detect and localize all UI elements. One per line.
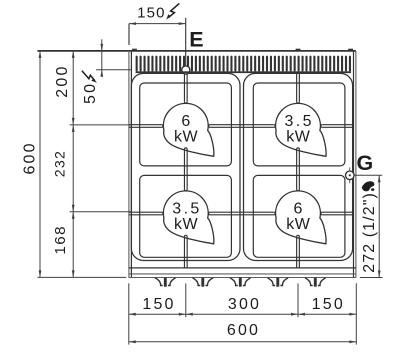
electrical connection point E xyxy=(182,66,190,74)
pan support frame bottom-left xyxy=(140,175,232,257)
pan support frame top-right xyxy=(253,83,345,166)
dimension chain 150/300/150 (bottom) xyxy=(129,283,356,344)
left hob panel outline xyxy=(131,73,240,260)
pan support frame top-left xyxy=(140,83,232,166)
svg-text:150: 150 xyxy=(312,296,345,313)
leader line to electrical connection E xyxy=(185,18,187,66)
svg-text:50: 50 xyxy=(82,82,99,104)
control knobs xyxy=(155,278,326,287)
cooktop left side wall xyxy=(129,51,132,278)
svg-text:kW: kW xyxy=(174,128,199,145)
value label 3.5 kW top-right xyxy=(284,113,313,145)
cooktop front edge xyxy=(129,268,356,278)
label G xyxy=(357,151,374,175)
dimension 272 (1/2&quot;) gas connection height (right) xyxy=(354,175,382,277)
svg-text:kW: kW xyxy=(174,216,199,233)
value label 3.5 kW bottom-left xyxy=(172,200,201,232)
label E xyxy=(189,28,203,52)
svg-text:168: 168 xyxy=(52,225,69,255)
burner 3.5 kW top-right xyxy=(276,103,326,156)
svg-text:150: 150 xyxy=(137,5,166,22)
burner 3.5 kW bottom-left xyxy=(163,191,213,244)
cooktop top rear edge xyxy=(37,50,356,52)
svg-text:E: E xyxy=(189,28,203,52)
dimension chain 200/232/168 (left) xyxy=(37,51,131,278)
svg-text:150: 150 xyxy=(142,296,175,313)
right hob panel outline xyxy=(244,73,353,260)
svg-text:232: 232 xyxy=(53,150,69,177)
rear ventilation rib strip xyxy=(136,56,351,74)
burner 6 kW top-left xyxy=(163,103,213,156)
burner 6 kW bottom-right xyxy=(276,191,326,244)
pan support grate bars xyxy=(129,74,354,268)
svg-text:600: 600 xyxy=(227,322,260,339)
svg-text:272 (1/2"): 272 (1/2") xyxy=(361,192,378,273)
dimension 50 with electrical symbol xyxy=(82,39,132,104)
svg-text:G: G xyxy=(357,151,374,175)
value label 6 kW bottom-right xyxy=(286,200,311,232)
svg-text:300: 300 xyxy=(228,296,261,313)
pan support frame bottom-right xyxy=(253,175,345,257)
dimension 600 overall width (bottom) xyxy=(129,322,356,343)
svg-text:kW: kW xyxy=(286,216,311,233)
rear edge mounting tabs xyxy=(132,49,353,51)
gas connection point G xyxy=(346,167,355,183)
dimension 600 overall depth (left) xyxy=(22,51,42,278)
cooktop right side wall xyxy=(354,51,356,278)
svg-text:600: 600 xyxy=(22,141,39,174)
dimension 150 with electrical symbol (top) xyxy=(129,3,186,45)
svg-text:200: 200 xyxy=(54,64,71,97)
svg-text:kW: kW xyxy=(286,128,311,145)
gas symbol flame icon xyxy=(362,181,375,191)
value label 6 kW top-left xyxy=(174,113,199,145)
